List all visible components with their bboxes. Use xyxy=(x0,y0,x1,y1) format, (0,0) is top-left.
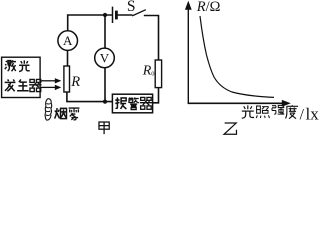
laser text: fa xyxy=(5,79,16,91)
wire: switch to right branch, down to R0 xyxy=(144,16,159,61)
svg-text:0: 0 xyxy=(151,71,154,78)
wire: ammeter to resistor R xyxy=(67,50,69,66)
laser generator box xyxy=(2,57,41,97)
figure label yi (right) xyxy=(224,123,236,134)
wire top-left: A-branch riser and top wire to battery xyxy=(68,15,112,31)
laser beam arrow 1 xyxy=(40,80,56,82)
smoke puff icon xyxy=(45,99,52,120)
alarm box (bao-jing-qi) xyxy=(112,94,152,113)
wire: voltmeter branch upper xyxy=(104,15,106,48)
laser text: qi xyxy=(29,79,41,91)
x-axis label: qiang xyxy=(272,105,284,114)
battery short plate (-) xyxy=(115,11,118,20)
smoke label: yan xyxy=(55,108,67,119)
laser text: ji xyxy=(5,60,16,71)
battery long plate (+) xyxy=(112,7,114,23)
graph x-axis xyxy=(188,102,283,104)
wire: battery to switch xyxy=(116,14,132,16)
x-axis label: guang xyxy=(242,105,254,118)
laser text: sheng xyxy=(17,79,29,90)
switch S blade xyxy=(132,10,146,16)
alarm text: jing xyxy=(128,97,138,109)
voltmeter circle xyxy=(95,48,115,68)
wire: R0 to alarm box xyxy=(153,88,159,103)
R vs light-intensity curve xyxy=(200,16,274,97)
resistor R body xyxy=(64,66,70,92)
alarm text: qi xyxy=(140,97,152,109)
smoke label: wu xyxy=(69,108,80,120)
node: top junction dot xyxy=(103,13,107,17)
svg-text:R: R xyxy=(70,74,80,90)
svg-text:V: V xyxy=(100,50,110,65)
svg-text:A: A xyxy=(63,33,73,48)
ammeter U=A circle xyxy=(58,31,78,51)
alarm text: bao xyxy=(115,97,126,109)
wire: R to bottom wire and bottom wire to alarm box xyxy=(67,92,112,102)
svg-text:/: / xyxy=(300,106,305,123)
x-axis label: du xyxy=(286,105,299,119)
svg-text:R/Ω: R/Ω xyxy=(196,0,221,15)
laser beam arrow 2 xyxy=(40,86,56,88)
svg-text:S: S xyxy=(127,0,136,15)
wire: voltmeter branch lower xyxy=(104,68,106,102)
figure label jia (left) xyxy=(99,122,109,134)
resistor R0 body xyxy=(155,60,161,88)
svg-text:R: R xyxy=(142,64,152,79)
x-axis label: zhao xyxy=(256,106,269,118)
graph y-axis xyxy=(187,9,189,104)
node: bottom junction dot xyxy=(103,100,107,104)
laser text: guang xyxy=(19,60,30,71)
svg-text:lx: lx xyxy=(306,104,320,123)
